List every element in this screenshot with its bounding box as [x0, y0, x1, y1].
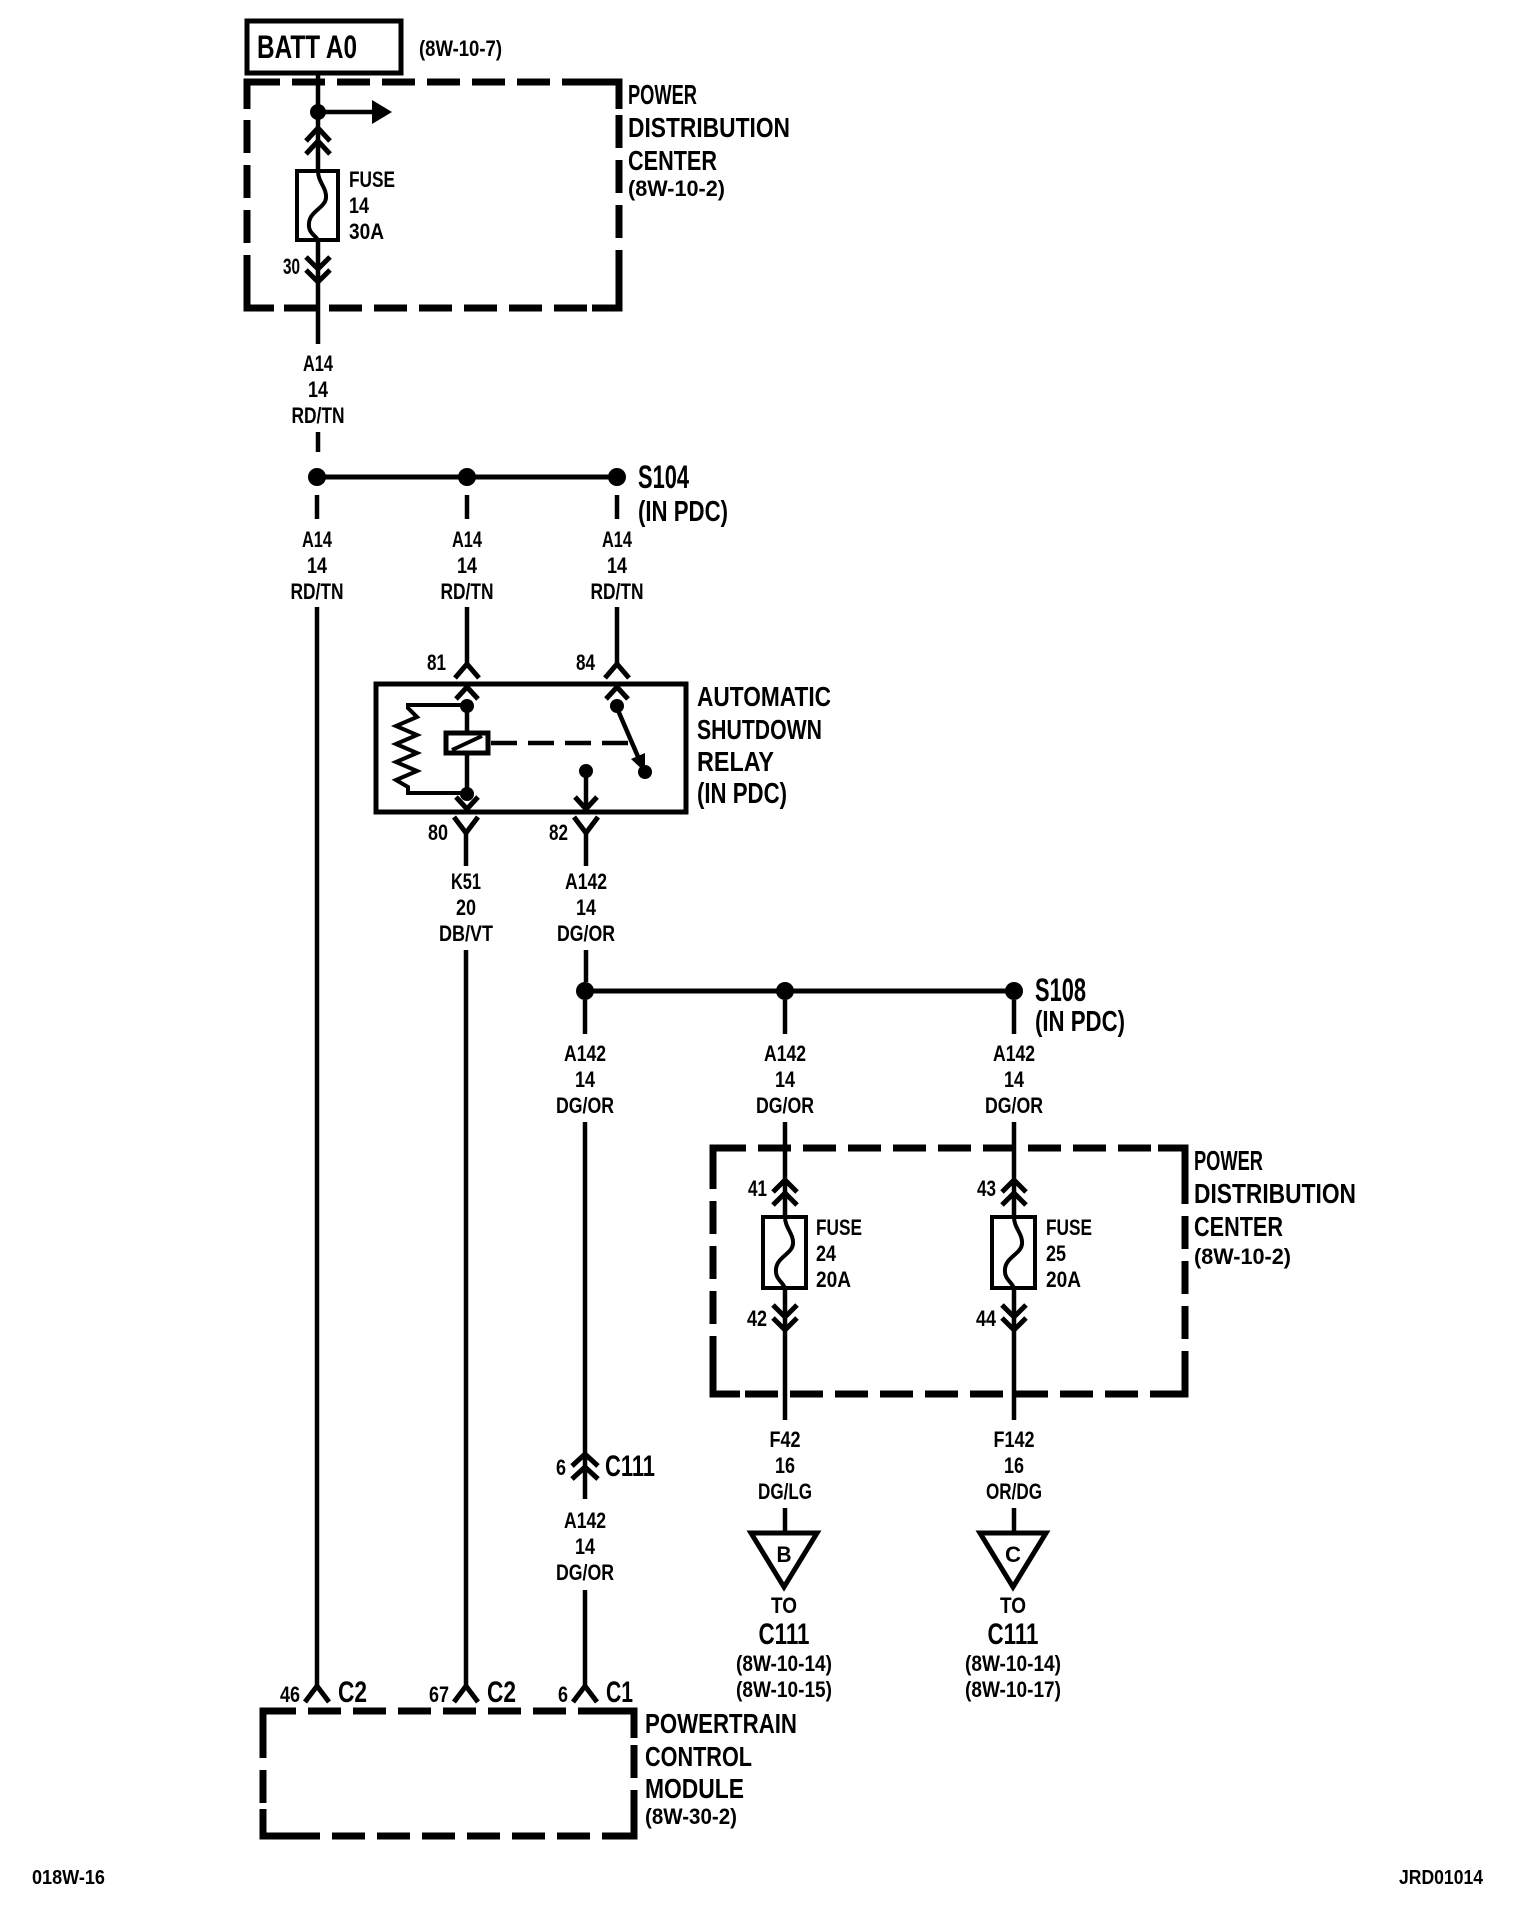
svg-text:DG/OR: DG/OR [556, 1093, 614, 1118]
svg-text:RELAY: RELAY [697, 746, 774, 777]
destination label TO C111 (C) [965, 1593, 1061, 1702]
power distribution center box 2 (dashed) [713, 1148, 1185, 1394]
powertrain control module box (dashed) [263, 1711, 634, 1836]
relay U1 box (automatic shutdown relay) [376, 684, 686, 812]
long wire left column to PCM pin 46 [315, 607, 320, 1686]
svg-text:16: 16 [1004, 1453, 1024, 1478]
svg-text:(IN PDC): (IN PDC) [697, 778, 787, 810]
pin 67 [429, 1682, 449, 1707]
connector chevrons (up) above fuse [306, 128, 330, 154]
connector chevrons (down) pin 42 [773, 1305, 797, 1330]
splice dot middle [776, 982, 794, 1000]
svg-text:F42: F42 [770, 1427, 801, 1452]
svg-text:K51: K51 [451, 869, 481, 894]
wire label F142 16 OR/DG [986, 1427, 1042, 1504]
svg-text:BATT A0: BATT A0 [257, 29, 357, 65]
svg-text:A142: A142 [564, 1041, 606, 1066]
svg-text:POWERTRAIN: POWERTRAIN [645, 1708, 797, 1739]
svg-text:DG/OR: DG/OR [556, 1560, 614, 1585]
svg-text:14: 14 [457, 553, 478, 578]
svg-text:(IN PDC): (IN PDC) [1035, 1006, 1125, 1038]
node label S108 (IN PDC) [1035, 972, 1125, 1038]
svg-text:(8W-10-14): (8W-10-14) [736, 1651, 832, 1676]
svg-text:A142: A142 [565, 869, 607, 894]
svg-text:84: 84 [576, 650, 596, 675]
wire contact to pin 82 [584, 771, 589, 808]
svg-text:A14: A14 [303, 351, 334, 376]
connector fork PCM pin 6 [573, 1686, 597, 1702]
svg-text:F142: F142 [994, 1427, 1035, 1452]
svg-text:AUTOMATIC: AUTOMATIC [697, 681, 831, 712]
svg-text:A14: A14 [452, 527, 483, 552]
svg-text:14: 14 [575, 1067, 596, 1092]
label AUTOMATIC SHUTDOWN RELAY (IN PDC) [697, 681, 831, 810]
splice dot left [576, 982, 594, 1000]
node dot switch common [610, 699, 624, 713]
wire stub to splice [316, 432, 321, 452]
connector fork below pin 80 [454, 817, 478, 866]
wire left branch down to C111 [583, 1122, 588, 1499]
wire label A14 14 RD/TN [292, 351, 345, 428]
switch output contact dot [579, 764, 593, 778]
wire label A14 14 RD/TN (left) [291, 527, 344, 604]
svg-text:B: B [777, 1542, 792, 1567]
svg-text:(8W-10-2): (8W-10-2) [628, 176, 725, 201]
coil wire [465, 706, 470, 794]
connector name C2 (pin 46) [338, 1676, 367, 1709]
inline connector C111 pin 6 chevrons [572, 1454, 598, 1479]
svg-text:RD/TN: RD/TN [291, 579, 344, 604]
svg-text:44: 44 [976, 1306, 997, 1331]
svg-text:DISTRIBUTION: DISTRIBUTION [1194, 1178, 1356, 1209]
svg-text:(IN PDC): (IN PDC) [638, 496, 728, 528]
connector fork below pin 82 [574, 817, 598, 866]
svg-text:A142: A142 [564, 1508, 606, 1533]
svg-text:RD/TN: RD/TN [591, 579, 644, 604]
svg-text:14: 14 [349, 193, 370, 218]
label POWERTRAIN CONTROL MODULE (8W-30-2) [645, 1708, 797, 1829]
splice dot right S104 [608, 468, 626, 486]
wire stub below left dot [583, 1000, 588, 1034]
pin 82 [549, 820, 568, 845]
connector name C1 (pin 6) [606, 1676, 633, 1709]
destination label TO C111 (B) [736, 1593, 832, 1702]
svg-text:A14: A14 [302, 527, 333, 552]
chevron (down) pin 80 inside [456, 797, 478, 809]
svg-text:FUSE: FUSE [1046, 1215, 1092, 1240]
svg-text:20: 20 [456, 895, 476, 920]
svg-text:DB/VT: DB/VT [439, 921, 493, 946]
connector chevron pin 81 inside [456, 687, 478, 699]
connector name C111 [605, 1450, 655, 1483]
pin 6 at C111 [556, 1455, 566, 1480]
svg-text:C2: C2 [487, 1676, 516, 1709]
node label S104 (IN PDC) [638, 459, 728, 528]
chevron (down) pin 82 inside [575, 797, 597, 809]
svg-text:(8W-10-2): (8W-10-2) [1194, 1244, 1291, 1269]
svg-text:C: C [1005, 1542, 1021, 1567]
wire stub to splice S108 [584, 950, 589, 982]
label POWER DISTRIBUTION CENTER (8W-10-2) [628, 79, 790, 201]
relay coil box [446, 733, 488, 753]
svg-text:CONTROL: CONTROL [645, 1741, 752, 1772]
svg-text:OR/DG: OR/DG [986, 1479, 1042, 1504]
wire right to relay pin 84 [615, 607, 620, 664]
label FUSE 14 30A [349, 167, 395, 244]
switch arm with arrowhead [617, 708, 645, 772]
svg-text:81: 81 [427, 650, 446, 675]
svg-text:CENTER: CENTER [628, 145, 717, 176]
svg-text:(8W-10-15): (8W-10-15) [736, 1677, 832, 1702]
connector fork pin 84 [605, 664, 629, 678]
svg-text:A142: A142 [993, 1041, 1035, 1066]
pin 41 [748, 1176, 767, 1201]
mechanical linkage (dashed) [491, 741, 632, 746]
wire label A142 14 DG/OR (left) [556, 1041, 614, 1118]
drawing code JRD01014 [1399, 1867, 1484, 1889]
pin 46 [280, 1682, 300, 1707]
svg-text:(8W-10-14): (8W-10-14) [965, 1651, 1061, 1676]
svg-text:RD/TN: RD/TN [441, 579, 494, 604]
svg-text:DG/LG: DG/LG [758, 1479, 812, 1504]
connector chevron pin 84 inside [606, 687, 628, 699]
svg-text:A142: A142 [764, 1041, 806, 1066]
svg-text:POWER: POWER [628, 79, 697, 110]
wire from BATT A0 down to fuse [316, 73, 321, 171]
wire to PCM pin 6 [583, 1590, 588, 1686]
svg-text:DG/OR: DG/OR [756, 1093, 814, 1118]
off-page connector triangle C [980, 1533, 1046, 1587]
svg-text:41: 41 [748, 1176, 767, 1201]
svg-text:RD/TN: RD/TN [292, 403, 345, 428]
connector chevrons (down) pin 44 [1002, 1305, 1026, 1330]
long wire K51 to PCM pin 67 [464, 950, 469, 1686]
splice dot left [308, 468, 326, 486]
svg-text:42: 42 [747, 1306, 767, 1331]
wire stub to triangle C [1012, 1508, 1017, 1533]
svg-text:(8W-10-7): (8W-10-7) [419, 36, 502, 61]
svg-text:80: 80 [428, 820, 448, 845]
wire stub below middle dot [783, 1000, 788, 1034]
wire right branch into PDC [1012, 1122, 1017, 1217]
page code 018W-16 [32, 1867, 105, 1889]
wire label A142 14 DG/OR (below C111) [556, 1508, 614, 1585]
svg-text:20A: 20A [816, 1267, 851, 1292]
svg-text:46: 46 [280, 1682, 300, 1707]
wire label A14 14 RD/TN (middle) [441, 527, 494, 604]
pin 30 [283, 254, 300, 279]
wire label A142 14 DG/OR (middle) [756, 1041, 814, 1118]
splice dot middle [458, 468, 476, 486]
resistor (coil suppression) [396, 705, 467, 793]
svg-text:14: 14 [607, 553, 628, 578]
node dot coil top [460, 699, 474, 713]
svg-text:24: 24 [816, 1241, 837, 1266]
connector fork pin 81 [455, 664, 479, 678]
svg-text:6: 6 [556, 1455, 566, 1480]
pin 84 [576, 650, 596, 675]
svg-text:82: 82 [549, 820, 568, 845]
fuse 25 symbol [992, 1217, 1035, 1288]
wire label A14 14 RD/TN (right) [591, 527, 644, 604]
svg-text:C111: C111 [759, 1618, 810, 1651]
svg-text:C2: C2 [338, 1676, 367, 1709]
wire middle to relay pin 81 [465, 607, 470, 664]
junction node dot [310, 104, 326, 120]
svg-text:30: 30 [283, 254, 300, 279]
wire middle branch into PDC [783, 1122, 788, 1217]
svg-text:POWER: POWER [1194, 1145, 1263, 1176]
wire below fuse out of PDC [316, 240, 321, 344]
svg-text:14: 14 [308, 377, 329, 402]
svg-text:6: 6 [558, 1682, 568, 1707]
label FUSE 24 20A [816, 1215, 862, 1292]
pin 44 [976, 1306, 997, 1331]
fuse block BATT A0 [247, 21, 401, 73]
splice S104 bus wire [317, 475, 617, 480]
off-page connector triangle B [751, 1533, 817, 1587]
connector chevrons (up) pin 41 [773, 1180, 797, 1205]
wire label F42 16 DG/LG [758, 1427, 812, 1504]
label FUSE 25 20A [1046, 1215, 1092, 1292]
svg-text:14: 14 [775, 1067, 796, 1092]
pin 81 [427, 650, 446, 675]
svg-text:TO: TO [1000, 1593, 1026, 1618]
arrow branch to right [318, 100, 392, 124]
svg-text:TO: TO [771, 1593, 797, 1618]
svg-text:(8W-30-2): (8W-30-2) [645, 1804, 737, 1829]
svg-text:25: 25 [1046, 1241, 1066, 1266]
svg-text:DISTRIBUTION: DISTRIBUTION [628, 112, 790, 143]
fuse 24 symbol [763, 1217, 806, 1288]
connector name C2 (pin 67) [487, 1676, 516, 1709]
wire label A142 14 DG/OR (pin 82) [557, 869, 615, 946]
svg-text:FUSE: FUSE [816, 1215, 862, 1240]
fuse 14 30A symbol [297, 171, 338, 240]
svg-text:S104: S104 [638, 459, 689, 495]
svg-text:JRD01014: JRD01014 [1399, 1867, 1484, 1889]
pin 42 [747, 1306, 767, 1331]
svg-text:A14: A14 [602, 527, 633, 552]
reference label (8W-10-7) [419, 36, 502, 61]
svg-text:SHUTDOWN: SHUTDOWN [697, 714, 822, 745]
pin 43 [977, 1176, 996, 1201]
svg-text:14: 14 [575, 1534, 596, 1559]
svg-text:43: 43 [977, 1176, 996, 1201]
wire label A142 14 DG/OR (right) [985, 1041, 1043, 1118]
svg-text:DG/OR: DG/OR [985, 1093, 1043, 1118]
svg-text:DG/OR: DG/OR [557, 921, 615, 946]
svg-text:20A: 20A [1046, 1267, 1081, 1292]
svg-text:S108: S108 [1035, 972, 1086, 1008]
pin 80 [428, 820, 448, 845]
wire stub below right dot [1012, 1000, 1017, 1034]
pin 6 (PCM) [558, 1682, 568, 1707]
svg-text:30A: 30A [349, 219, 384, 244]
connector fork PCM pin 67 [454, 1686, 478, 1702]
svg-text:018W-16: 018W-16 [32, 1867, 105, 1889]
connector fork PCM pin 46 [305, 1686, 329, 1702]
wire stub to triangle B [783, 1508, 788, 1533]
label POWER DISTRIBUTION CENTER (8W-10-2) [1194, 1145, 1356, 1269]
node dot coil bottom [460, 787, 474, 801]
svg-text:CENTER: CENTER [1194, 1211, 1283, 1242]
svg-text:FUSE: FUSE [349, 167, 395, 192]
svg-text:14: 14 [1004, 1067, 1025, 1092]
svg-text:16: 16 [775, 1453, 795, 1478]
switch contact dot (arm end) [638, 765, 652, 779]
wire stub below right dot [615, 495, 620, 519]
svg-text:C1: C1 [606, 1676, 633, 1709]
svg-text:14: 14 [576, 895, 597, 920]
wire label K51 20 DB/VT [439, 869, 493, 946]
svg-text:14: 14 [307, 553, 328, 578]
wire stub below left dot [315, 495, 320, 519]
wire below fuse 24 [783, 1288, 788, 1420]
wire below fuse 25 [1012, 1288, 1017, 1420]
splice S108 bus wire [585, 989, 1014, 994]
svg-text:(8W-10-17): (8W-10-17) [965, 1677, 1061, 1702]
power distribution center box (dashed) [247, 82, 619, 308]
svg-text:67: 67 [429, 1682, 449, 1707]
svg-text:MODULE: MODULE [645, 1773, 744, 1804]
connector chevrons (up) pin 43 [1002, 1180, 1026, 1205]
splice dot right S108 [1005, 982, 1023, 1000]
wire stub below middle dot [465, 495, 470, 519]
svg-text:C111: C111 [988, 1618, 1039, 1651]
svg-text:C111: C111 [605, 1450, 655, 1483]
connector chevrons (down) at pin 30 [306, 257, 330, 282]
